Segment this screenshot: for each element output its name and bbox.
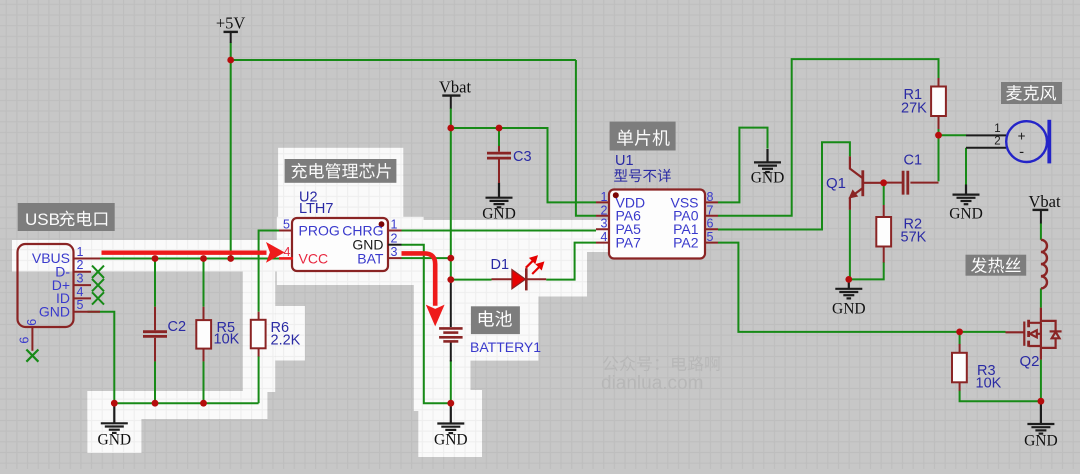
svg-text:6: 6 xyxy=(707,217,714,231)
label MCU xyxy=(610,122,676,151)
resistor R3 xyxy=(959,344,961,391)
wire heater coil leads xyxy=(1040,223,1042,240)
svg-text:GND: GND xyxy=(482,205,516,222)
svg-text:BAT: BAT xyxy=(357,250,384,266)
label USB charging port xyxy=(18,203,115,231)
svg-text:GND: GND xyxy=(434,432,468,449)
svg-text:GND: GND xyxy=(98,431,132,448)
svg-text:PA7: PA7 xyxy=(616,235,642,251)
wire C3 top lead xyxy=(498,128,500,147)
red current-flow arrow BAT to battery xyxy=(402,253,436,305)
wire U2 GND to battery minus xyxy=(402,245,450,404)
wire PA0 to R1 xyxy=(718,59,939,216)
svg-text:C3: C3 xyxy=(513,149,532,165)
ground (battery) xyxy=(437,406,464,433)
highlighted net background xyxy=(12,148,651,457)
transistor Q2 (NMOS) xyxy=(1006,308,1062,360)
svg-text:BATTERY1: BATTERY1 xyxy=(470,339,541,355)
wire BAT row xyxy=(402,257,451,259)
svg-text:3: 3 xyxy=(77,272,84,286)
svg-text:3: 3 xyxy=(391,245,398,259)
wire R6 bottom xyxy=(258,356,260,403)
svg-text:4: 4 xyxy=(284,245,291,259)
svg-text:U1: U1 xyxy=(615,153,634,169)
capacitor C1 xyxy=(884,182,939,184)
ground (mic) xyxy=(953,185,980,205)
svg-text:4: 4 xyxy=(77,285,84,299)
ground (U1 VSS) xyxy=(754,149,781,172)
svg-text:Q2: Q2 xyxy=(1020,353,1040,370)
ground (Q2 source) xyxy=(1027,404,1054,434)
svg-text:5: 5 xyxy=(283,217,290,231)
wire R5 drop xyxy=(203,259,205,307)
wire CHRG to PA5 xyxy=(402,230,597,232)
svg-text:2: 2 xyxy=(601,203,608,217)
MCU chip U1 xyxy=(609,190,705,259)
svg-text:C1: C1 xyxy=(904,152,923,168)
ground (USB) xyxy=(101,406,128,433)
svg-text:7: 7 xyxy=(707,203,714,217)
wire Vbat vertical (battery plus) xyxy=(450,108,452,281)
label battery xyxy=(471,306,520,334)
wire R3 leads xyxy=(959,332,961,345)
svg-text:4: 4 xyxy=(601,230,608,244)
svg-text:GND: GND xyxy=(1024,433,1058,450)
label charge management chip xyxy=(285,159,397,183)
battery BT1 xyxy=(450,281,452,328)
wire PA2 to Q2 gate xyxy=(718,243,1006,332)
svg-text:1: 1 xyxy=(601,190,608,204)
svg-text:dianlua.com: dianlua.com xyxy=(601,373,703,394)
wire D1 cathode to PA7 xyxy=(546,243,596,280)
label heating wire xyxy=(966,255,1027,276)
wire Vbat to C3 to VDD xyxy=(451,128,596,202)
microphone MK1 xyxy=(966,135,1006,147)
wire +5V rail xyxy=(230,43,232,259)
wire D1 anode xyxy=(451,279,492,281)
wire VBUS row xyxy=(88,258,280,260)
svg-text:-: - xyxy=(1019,143,1024,160)
svg-text:PROG: PROG xyxy=(299,223,340,239)
watermark xyxy=(603,356,619,371)
charge management chip U2 (LTH7) xyxy=(292,218,388,271)
svg-text:1: 1 xyxy=(77,245,84,259)
LED D1 xyxy=(492,278,547,280)
wire C2 drop xyxy=(154,259,156,307)
svg-text:GND: GND xyxy=(39,303,70,319)
svg-text:VCC: VCC xyxy=(299,250,329,266)
svg-text:LTH7: LTH7 xyxy=(299,201,333,217)
svg-text:10K: 10K xyxy=(214,331,240,347)
svg-text:GND: GND xyxy=(832,301,866,318)
svg-text:2: 2 xyxy=(994,135,1000,147)
svg-text:57K: 57K xyxy=(901,229,927,245)
svg-text:2.2K: 2.2K xyxy=(271,333,301,349)
resistor R6 xyxy=(258,312,260,357)
wire R2 top xyxy=(883,183,885,205)
svg-text:GND: GND xyxy=(949,205,983,222)
svg-text:Q1: Q1 xyxy=(826,175,846,192)
junction dots xyxy=(227,57,234,64)
resistor R5 xyxy=(203,307,205,362)
resistor R2 xyxy=(883,205,885,263)
wire PA1 to Q1 collector xyxy=(718,142,850,229)
svg-text:5: 5 xyxy=(77,298,84,312)
wire USB GND pin xyxy=(88,312,115,404)
svg-text:27K: 27K xyxy=(901,101,927,117)
svg-text:+: + xyxy=(1018,128,1026,143)
red current-flow arrow VBUS to VCC xyxy=(102,251,267,255)
svg-text:1: 1 xyxy=(391,217,398,231)
svg-text:C2: C2 xyxy=(168,319,187,335)
capacitor C2 xyxy=(154,307,156,331)
wire GND rail xyxy=(114,402,258,404)
svg-text:USB: USB xyxy=(25,210,60,229)
svg-text:2: 2 xyxy=(77,258,84,272)
transistor Q1 (NPN) xyxy=(850,156,884,209)
svg-text:6: 6 xyxy=(25,319,39,326)
svg-text:3: 3 xyxy=(601,217,608,231)
USB connector J1 xyxy=(18,244,74,327)
svg-text:GND: GND xyxy=(751,170,785,187)
svg-text:6: 6 xyxy=(18,337,32,344)
ground (Q1 emitter) xyxy=(835,281,862,298)
no-connect X marks on D-, D+, ID xyxy=(92,266,104,305)
wire Q1 emitter to GND xyxy=(849,210,851,280)
svg-text:D1: D1 xyxy=(491,257,510,273)
svg-text:Vbat: Vbat xyxy=(439,78,471,97)
resistor R1 xyxy=(938,78,940,129)
heater coil (inductor) xyxy=(1041,240,1047,289)
wire Q2 source to GND xyxy=(1040,360,1042,402)
wire R1 bottom / C1 right / mic pin1 xyxy=(938,128,940,181)
wire VSS to GND xyxy=(718,128,768,203)
svg-text:Vbat: Vbat xyxy=(1028,192,1060,211)
USB pin 6 (shield) xyxy=(31,327,33,351)
svg-text:1: 1 xyxy=(994,123,1000,135)
svg-text:5: 5 xyxy=(707,230,714,244)
svg-text:+5V: +5V xyxy=(216,14,246,33)
wire mic pin2 to GND xyxy=(965,148,967,185)
wire R2 bottom xyxy=(849,262,884,279)
ground (C3) xyxy=(486,183,513,208)
wire R6 to PROG xyxy=(259,231,279,312)
svg-text:8: 8 xyxy=(707,190,714,204)
label microphone xyxy=(1001,82,1062,104)
svg-text:10K: 10K xyxy=(976,376,1002,392)
svg-text:2: 2 xyxy=(391,232,398,246)
svg-text:PA2: PA2 xyxy=(673,235,699,251)
capacitor C3 xyxy=(498,146,500,152)
